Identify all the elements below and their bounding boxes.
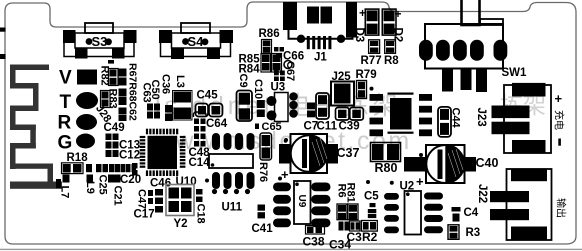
resistor R67 pads [119, 69, 127, 86]
diode D3 [353, 6, 379, 42]
svg-text:R86: R86 [259, 28, 280, 40]
capacitor C62 pads [119, 108, 127, 122]
pads right of Y2 [196, 189, 203, 202]
svg-text:C12: C12 [119, 150, 140, 162]
svg-text:C5: C5 [364, 191, 379, 203]
capacitor C64 label [206, 118, 228, 130]
svg-text:Y2: Y2 [174, 218, 188, 230]
capacitor C40 [404, 145, 498, 189]
svg-text:输出: 输出 [555, 198, 568, 218]
antenna feed pad [56, 179, 61, 188]
capacitor C13 label [119, 140, 140, 152]
connector J23 [475, 83, 551, 153]
capacitor C20 pads [132, 163, 138, 176]
svg-text:C45: C45 [197, 90, 219, 102]
svg-text:R8: R8 [384, 55, 399, 67]
svg-text:C18: C18 [195, 204, 207, 224]
capacitor C39 [336, 108, 364, 133]
chinese label charge [553, 110, 566, 130]
capacitor C18 label [195, 204, 207, 224]
svg-text:R3: R3 [466, 227, 481, 239]
svg-text:U11: U11 [222, 202, 243, 214]
svg-text:+: + [416, 174, 424, 189]
capacitor C37 [279, 134, 359, 182]
svg-text:充电: 充电 [553, 110, 566, 130]
svg-text:R2: R2 [362, 230, 378, 244]
svg-text:J23: J23 [475, 108, 487, 127]
via dot right of C65 [284, 139, 288, 143]
diode D2 [382, 7, 403, 42]
capacitor C11 [316, 93, 338, 133]
capacitor C67 [274, 61, 296, 81]
capacitor C17 [134, 190, 155, 221]
svg-text:L9: L9 [84, 181, 96, 194]
svg-text:U3: U3 [271, 82, 286, 94]
capacitor C65 [255, 121, 282, 160]
via dot right of C5 [390, 181, 394, 185]
svg-text:SW1: SW1 [502, 67, 528, 79]
resistor R84 [239, 54, 282, 76]
capacitor C12 label [119, 150, 140, 162]
resistor R8 [384, 40, 399, 67]
IC U3 [267, 82, 298, 122]
svg-text:R67R68C62: R67R68C62 [127, 63, 139, 121]
antenna L1 meander trace [10, 65, 62, 189]
resistor R2 [362, 221, 378, 245]
edge mark 2 [0, 54, 6, 59]
capacitor C50 [149, 80, 161, 100]
watermark text row 2 [154, 127, 412, 155]
capacitor C4 [452, 207, 479, 222]
capacitor C44 [438, 107, 462, 137]
label + for J23 [555, 91, 563, 106]
svg-text:D3: D3 [353, 28, 365, 43]
fiducial via below C66 [284, 61, 292, 69]
svg-text:J22: J22 [476, 184, 488, 203]
svg-text:R76: R76 [257, 162, 269, 182]
capacitor C47 label [136, 189, 148, 209]
svg-text:C47: C47 [136, 189, 148, 209]
svg-text:R81: R81 [345, 183, 357, 203]
inductor L9 label [84, 181, 96, 194]
resistor R86 [259, 28, 280, 54]
svg-text:L3: L3 [174, 75, 186, 88]
resistor R79 [356, 69, 377, 99]
photo bottom edge line [0, 249, 582, 250]
IC U9 [273, 181, 331, 227]
passive row second rank [63, 175, 121, 183]
connector J22 [476, 169, 552, 240]
svg-text:C4: C4 [464, 207, 479, 219]
svg-text:+: + [281, 167, 289, 182]
capacitor C25 label [97, 175, 109, 195]
svg-text:U9: U9 [296, 195, 307, 208]
pad R [58, 113, 98, 134]
watermark text row 1 [155, 92, 402, 120]
capacitor C41 [252, 205, 274, 236]
resistor R82 [99, 60, 119, 86]
capacitor C45 [196, 90, 223, 117]
label C46 [150, 178, 171, 190]
pad T [60, 92, 99, 113]
capacitor C5 [364, 191, 379, 219]
resistor R77 [361, 40, 382, 67]
svg-text:C65: C65 [262, 121, 282, 133]
capacitor C20 label [120, 174, 141, 186]
svg-text:+: + [555, 91, 563, 106]
resistor R81 [345, 183, 359, 220]
svg-text:T: T [60, 92, 72, 113]
capacitor C9 [237, 74, 253, 122]
svg-text:C9: C9 [237, 74, 249, 88]
svg-text:C67: C67 [284, 61, 296, 81]
component J25 [331, 71, 354, 106]
pad V [59, 68, 97, 89]
capacitor C7 [304, 103, 319, 133]
svg-text:C41: C41 [252, 223, 274, 235]
label U10 [176, 176, 197, 188]
capacitor C3 [347, 221, 363, 244]
via dots below U11 [212, 189, 250, 194]
svg-text:S4: S4 [188, 34, 205, 49]
svg-text:C25: C25 [97, 175, 109, 195]
svg-text:R80: R80 [375, 161, 398, 175]
svg-text:S3: S3 [92, 34, 108, 49]
svg-text:C39: C39 [339, 121, 360, 133]
inductor L3 [173, 75, 193, 120]
svg-text:C20: C20 [120, 174, 141, 186]
pin-1 dot of U5 [370, 87, 374, 91]
capacitor C38 [303, 226, 325, 249]
inductor L7 label [59, 186, 71, 199]
crystal Y2 [166, 185, 194, 231]
label U11 [222, 202, 243, 214]
edge mark 1 [0, 28, 6, 32]
svg-text:C49: C49 [104, 122, 125, 134]
resistor R68 pads [119, 89, 127, 106]
svg-text:C64: C64 [206, 118, 228, 130]
switch S3 [63, 23, 137, 59]
label R76 [257, 162, 269, 182]
via dot left of U2 [366, 180, 370, 184]
svg-text:C14: C14 [189, 157, 211, 169]
capacitor C36 [160, 74, 173, 121]
svg-text:C38: C38 [303, 235, 325, 249]
svg-text:L7: L7 [59, 186, 71, 199]
switch SW1 [419, 0, 527, 92]
IC U11 [209, 133, 255, 189]
capacitor C46 pads [155, 189, 163, 213]
capacitor C66 [274, 47, 304, 63]
label J28 [93, 103, 113, 125]
via dot left of U9 [278, 177, 282, 181]
svg-text:C63: C63 [141, 83, 153, 103]
connector J1 [283, 2, 357, 64]
via dot right of U10 label [205, 179, 209, 183]
svg-text:C46: C46 [150, 178, 171, 190]
IC U10 (QFN) [140, 129, 186, 176]
chinese label output [555, 198, 568, 218]
resistor R6 [336, 184, 348, 220]
pad G [58, 133, 96, 154]
capacitor C10 [252, 79, 265, 117]
svg-text:R79: R79 [356, 69, 377, 81]
svg-text:C11: C11 [317, 121, 338, 133]
resistor R18 and passive row [62, 152, 137, 174]
svg-text:C3: C3 [347, 230, 363, 244]
svg-text:C21: C21 [112, 186, 124, 206]
resistor R80 [371, 143, 401, 176]
IC U2 [384, 181, 443, 235]
resistor R85 [239, 54, 271, 73]
svg-text:R77: R77 [361, 55, 382, 67]
IC U5 [370, 93, 433, 137]
resistor R83 [101, 89, 119, 109]
capacitor C49 [104, 122, 125, 157]
svg-text:C10: C10 [252, 79, 264, 99]
label R67R68C62 [127, 63, 139, 121]
svg-text:C37: C37 [337, 146, 360, 160]
capacitor C34 [329, 222, 351, 251]
svg-text:C17: C17 [134, 209, 155, 221]
label - for J23 [558, 139, 561, 146]
svg-text:V: V [59, 68, 72, 89]
svg-text:R: R [58, 113, 72, 134]
capacitor C21 label [112, 186, 124, 206]
capacitors C48 C14 pad cluster [189, 112, 211, 169]
svg-text:C40: C40 [476, 156, 499, 170]
capacitor C63 [141, 83, 161, 119]
svg-text:J1: J1 [314, 52, 327, 64]
resistor R3 [448, 225, 480, 240]
svg-text:C44: C44 [450, 108, 462, 129]
switch S4 [159, 23, 233, 59]
watermark fragment right [500, 92, 546, 118]
svg-text:G: G [58, 133, 73, 154]
